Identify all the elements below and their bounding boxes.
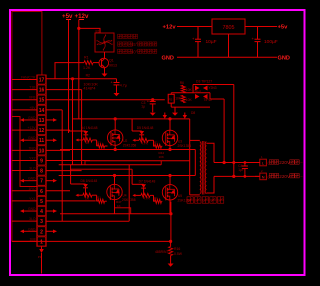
- svg-text:U4: U4: [123, 194, 127, 198]
- wire pin17 row: [46, 78, 116, 80]
- wire low bus A: [85, 161, 190, 165]
- junction pin15 c3: [151, 98, 154, 101]
- mosfet U2: [108, 130, 137, 148]
- svg-text:3LO: 3LO: [29, 217, 36, 221]
- svg-text:GND: GND: [28, 207, 36, 211]
- svg-text:15: 15: [39, 98, 45, 104]
- wire +5v vertical: [68, 20, 70, 134]
- net +12v label reg: [163, 25, 177, 31]
- wire pin9 row: [46, 160, 90, 162]
- svg-text:U2: U2: [123, 139, 127, 143]
- svg-text:+12v: +12v: [163, 25, 177, 31]
- wire driver out upper: [193, 85, 234, 93]
- svg-text:4.7K: 4.7K: [141, 142, 148, 146]
- wire low bus C: [59, 175, 196, 177]
- wire mesh v81: [81, 90, 83, 165]
- svg-text:10: 10: [39, 148, 45, 154]
- wire reg output: [245, 26, 277, 28]
- wire driver top: [171, 93, 210, 95]
- wire reg input: [177, 26, 212, 28]
- svg-text:VFB: VFB: [29, 96, 36, 100]
- junction top bus: [114, 117, 172, 120]
- wire U3 drain: [169, 119, 171, 130]
- svg-text:45°: 45°: [131, 42, 138, 47]
- transformer T1 left loop: [190, 140, 200, 195]
- transistor Q1: [99, 58, 117, 68]
- svg-text:7805: 7805: [223, 25, 235, 31]
- svg-text:R5: R5: [169, 98, 173, 102]
- junction +12v fan tap: [77, 27, 80, 30]
- transformer T1 core: [202, 141, 204, 195]
- mosfet U3: [162, 130, 191, 148]
- svg-text:GND: GND: [28, 136, 36, 140]
- wire low bus B: [59, 161, 162, 165]
- svg-text:9013: 9013: [109, 64, 117, 68]
- svg-text:1K: 1K: [117, 204, 121, 208]
- connector pin wires and labels: [12, 75, 57, 241]
- junction L tap: [223, 161, 226, 164]
- svg-text:GND: GND: [28, 177, 36, 181]
- ground C2: [114, 93, 120, 96]
- wire Q1 emitter: [104, 67, 106, 73]
- wire pin3 row: [46, 165, 129, 221]
- wire mid bus: [60, 149, 195, 151]
- terminal L: [255, 155, 266, 166]
- svg-text:R1: R1: [154, 196, 158, 200]
- capacitor C4 output: [238, 163, 248, 177]
- svg-text:10K: 10K: [186, 88, 193, 92]
- svg-text:D3 TIP127: D3 TIP127: [196, 80, 212, 84]
- svg-text:1B8: 1B8: [29, 237, 35, 241]
- svg-text:YX2: YX2: [29, 156, 36, 160]
- diode D4 gate TL: [69, 126, 108, 148]
- vertical right B: [194, 150, 196, 176]
- vertical right A: [189, 119, 191, 195]
- flag arrow A: [163, 113, 167, 119]
- fan note line2: [118, 42, 157, 47]
- svg-text:220V: 220V: [279, 160, 291, 165]
- svg-text:4148*4: 4148*4: [83, 87, 95, 91]
- driver R5 box: [168, 94, 182, 103]
- driver pair Q5 Q6: [193, 90, 212, 102]
- junction C4: [232, 161, 246, 178]
- net +5v label: [62, 13, 73, 20]
- junction source bus: [169, 212, 172, 215]
- svg-text:9: 9: [40, 158, 43, 164]
- svg-text:485R/NTC: 485R/NTC: [155, 250, 172, 254]
- wire bottom feed: [71, 165, 133, 169]
- wire reg ground: [177, 56, 277, 58]
- svg-text:R1: R1: [154, 141, 158, 145]
- wire fan feed: [79, 28, 100, 33]
- wire +12v vertical: [78, 20, 80, 119]
- svg-text:2: 2: [40, 229, 43, 235]
- svg-text:D4 1N4148: D4 1N4148: [81, 126, 98, 130]
- junction U5 drain: [168, 174, 171, 177]
- svg-text:16: 16: [39, 88, 45, 94]
- svg-text:2SK1358: 2SK1358: [178, 144, 192, 148]
- svg-text:5: 5: [40, 199, 43, 205]
- svg-text:13: 13: [39, 118, 45, 124]
- fan note line3: [118, 49, 157, 54]
- wire pin8 row: [46, 170, 81, 172]
- svg-text:U3: U3: [178, 139, 182, 143]
- svg-text:R1: R1: [97, 196, 101, 200]
- svg-text:100µF: 100µF: [264, 39, 278, 45]
- wire mesh v72: [72, 79, 74, 165]
- diode D5 gate TR: [132, 119, 162, 148]
- svg-text:12: 12: [39, 128, 45, 134]
- fan M1: [95, 30, 114, 53]
- left bus wire: [12, 12, 42, 242]
- junction N tap: [232, 175, 235, 178]
- net +5v label reg: [278, 25, 289, 31]
- diode D6 gate BL: [71, 169, 107, 203]
- diode D7 gate BR: [132, 169, 162, 203]
- svg-text:0.5W: 0.5W: [174, 252, 183, 256]
- wire pin6 row: [46, 190, 70, 192]
- svg-text:8: 8: [40, 169, 43, 175]
- wire U4 source: [115, 200, 131, 214]
- transformer T1 primary winding: [200, 142, 201, 194]
- wire U2 source: [114, 145, 116, 149]
- junction NTC: [169, 240, 172, 243]
- svg-text:D8: D8: [191, 111, 195, 115]
- wire driver bottom: [171, 103, 210, 107]
- svg-text:R1: R1: [84, 56, 89, 60]
- ground NTC: [168, 264, 174, 267]
- capacitor C5 10uF: [192, 27, 217, 58]
- svg-text:L: L: [262, 161, 264, 165]
- svg-text:14: 14: [39, 108, 45, 114]
- wire U5 source: [169, 200, 171, 214]
- terminal N: [255, 169, 266, 180]
- svg-text:R2: R2: [86, 74, 90, 78]
- transformer T1 secondary bottom lead: [206, 176, 214, 193]
- svg-text:YX1: YX1: [29, 197, 36, 201]
- wire driver out lower: [210, 93, 224, 99]
- output label L: [268, 160, 304, 165]
- svg-text:2SK1358: 2SK1358: [123, 144, 137, 148]
- svg-text:Q1: Q1: [109, 59, 114, 63]
- wire pin10 row: [46, 149, 70, 151]
- wire source bus: [60, 213, 171, 215]
- ground U3: [172, 107, 178, 116]
- resistor R1 base: [83, 56, 99, 70]
- svg-text:3: 3: [40, 219, 43, 225]
- wire U5 drain: [169, 176, 171, 185]
- mosfet U4: [107, 184, 136, 202]
- pin1 down flag: [38, 246, 44, 273]
- resistor R7: [181, 95, 192, 102]
- left route wire: [12, 117, 37, 187]
- wire U3 source: [169, 146, 171, 150]
- svg-text:+12V: +12V: [27, 126, 36, 130]
- svg-text:7NO: 7NO: [29, 146, 36, 150]
- svg-text:B1: B1: [96, 30, 100, 34]
- svg-text:4.7K: 4.7K: [143, 197, 150, 201]
- wire pin12 row: [46, 129, 70, 131]
- svg-text:GND: GND: [28, 227, 36, 231]
- svg-text:10K: 10K: [186, 98, 193, 102]
- wire pin14 row: [46, 109, 62, 111]
- driver pair Q3 Q4: [195, 80, 217, 91]
- svg-text:220V: 220V: [279, 174, 291, 179]
- svg-text:10µF: 10µF: [206, 39, 217, 45]
- svg-text:3LO: 3LO: [29, 167, 36, 171]
- svg-text:1µF: 1µF: [238, 168, 244, 172]
- svg-text:GND: GND: [162, 56, 174, 62]
- vertical drop x171: [170, 202, 172, 242]
- ground Q1: [102, 74, 108, 77]
- svg-text:40°: 40°: [131, 49, 138, 54]
- svg-text:7: 7: [40, 179, 43, 185]
- junction U3 source: [159, 148, 172, 159]
- wire output N: [214, 175, 260, 177]
- flag arrow B: [183, 111, 196, 119]
- wire bottom bus: [12, 240, 171, 242]
- wire pin15 row: [46, 99, 165, 101]
- connector J1: [37, 75, 46, 246]
- transformer label: [187, 197, 224, 203]
- wire pin16 row: [46, 89, 81, 91]
- wire lower tap drop: [233, 85, 235, 177]
- wire reg mid ground: [228, 34, 230, 57]
- svg-text:10K: 10K: [159, 155, 164, 159]
- wire fan to Q1: [104, 52, 106, 59]
- wire U2 drain: [114, 119, 116, 130]
- svg-text:Y2N3: Y2N3: [209, 86, 217, 90]
- svg-text:FAN/CTR: FAN/CTR: [21, 75, 36, 79]
- svg-text:R6: R6: [180, 81, 184, 85]
- net GND label right: [278, 56, 290, 62]
- svg-text:GND: GND: [28, 116, 36, 120]
- capacitor C3: [141, 99, 155, 113]
- svg-text:ㄧ: ㄧ: [300, 175, 303, 179]
- svg-text:N: N: [262, 175, 265, 179]
- svg-text:R1: R1: [97, 140, 101, 144]
- junction U2 source: [114, 148, 117, 151]
- junction U4 drain: [113, 174, 116, 177]
- output label N: [268, 174, 304, 179]
- svg-text:11: 11: [39, 138, 45, 144]
- svg-text:1RO: 1RO: [29, 187, 36, 191]
- svg-text:TIP41: TIP41: [193, 90, 202, 94]
- svg-text:+5V: +5V: [29, 106, 36, 110]
- wire U4 drain: [114, 176, 116, 185]
- svg-text:R16: R16: [174, 247, 180, 251]
- svg-text:2SK1358: 2SK1358: [122, 198, 136, 202]
- svg-text:P1: P1: [38, 255, 42, 259]
- svg-text:6: 6: [40, 189, 43, 195]
- svg-text:ㄧ: ㄧ: [300, 161, 303, 165]
- net GND label left: [162, 56, 174, 62]
- svg-text:17: 17: [39, 77, 45, 83]
- svg-text:+5v: +5v: [278, 25, 289, 31]
- wire mesh v62: [61, 110, 63, 221]
- wire output L: [214, 162, 260, 164]
- wire pin5 row: [46, 200, 95, 202]
- mosfet U5: [162, 185, 191, 203]
- svg-text:GND: GND: [278, 56, 290, 62]
- capacitor C2 4.7u: [111, 79, 127, 93]
- fan note line1: [118, 34, 138, 38]
- svg-text:1µ: 1µ: [141, 104, 145, 108]
- wire R1 left: [55, 63, 84, 79]
- svg-text:D6 1N4148: D6 1N4148: [81, 179, 98, 183]
- svg-text:D7 1N4148: D7 1N4148: [139, 180, 156, 184]
- capacitor C6 100uF: [252, 27, 278, 58]
- ground C3: [150, 113, 156, 116]
- svg-text:TIP42: TIP42: [204, 98, 213, 102]
- wire upper tap drop: [223, 99, 225, 163]
- net +12v label: [75, 13, 89, 20]
- resistor network RN1: [83, 74, 98, 91]
- transformer T1 secondary top lead: [206, 143, 214, 162]
- resistor R6: [180, 81, 193, 93]
- wire top bus: [73, 118, 190, 120]
- svg-text:4: 4: [40, 209, 43, 215]
- resistor R16 NTC: [155, 241, 183, 263]
- svg-text:4.7µ: 4.7µ: [120, 84, 127, 88]
- regulator U5 7805: [212, 19, 245, 34]
- svg-text:T1B: T1B: [29, 86, 36, 90]
- junction +5v pin17: [71, 77, 74, 80]
- svg-text:1: 1: [40, 239, 43, 245]
- svg-text:D5 1N4148: D5 1N4148: [137, 126, 154, 130]
- svg-text:2SK1358: 2SK1358: [178, 198, 192, 202]
- transformer T1 secondary winding: [205, 142, 206, 194]
- svg-text:1.2K: 1.2K: [83, 66, 91, 70]
- svg-text:U5: U5: [178, 194, 182, 198]
